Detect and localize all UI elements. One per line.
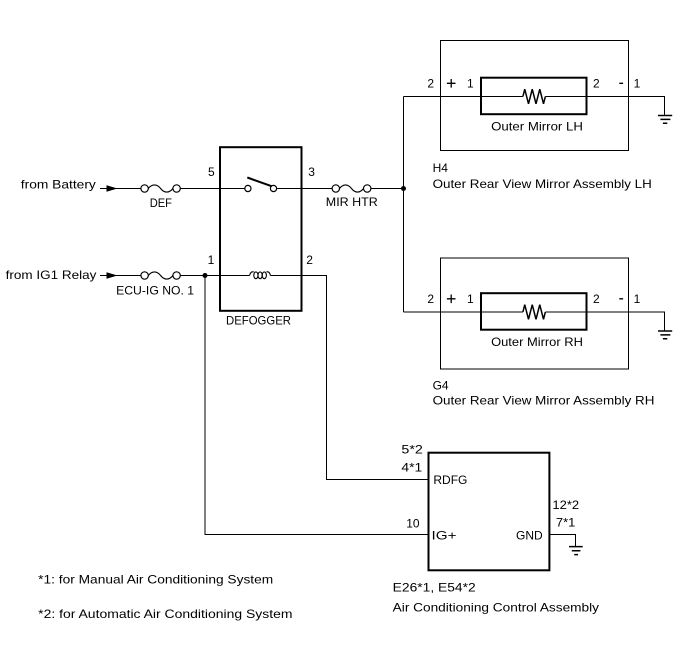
svg-text:H4: H4	[433, 161, 449, 175]
svg-text:1: 1	[467, 77, 474, 91]
svg-text:Outer Rear View Mirror Assembl: Outer Rear View Mirror Assembly RH	[433, 394, 655, 408]
svg-text:2: 2	[593, 292, 600, 306]
svg-text:10: 10	[406, 516, 420, 530]
svg-text:from IG1 Relay: from IG1 Relay	[6, 268, 97, 282]
svg-text:G4: G4	[433, 378, 449, 392]
svg-text:1: 1	[634, 292, 641, 306]
svg-text:12*2: 12*2	[552, 498, 579, 512]
svg-text:Outer Rear View Mirror Assembl: Outer Rear View Mirror Assembly LH	[433, 177, 652, 191]
svg-text:MIR HTR: MIR HTR	[326, 195, 378, 209]
svg-text:2: 2	[306, 253, 313, 267]
svg-text:from Battery: from Battery	[21, 177, 96, 191]
svg-text:3: 3	[308, 165, 315, 179]
svg-text:2: 2	[427, 292, 434, 306]
svg-text:1: 1	[208, 253, 215, 267]
svg-text:ECU-IG NO. 1: ECU-IG NO. 1	[116, 284, 194, 298]
svg-text:*1: for Manual Air Conditionin: *1: for Manual Air Conditioning System	[38, 573, 273, 587]
svg-text:5: 5	[208, 165, 215, 179]
svg-text:E26*1, E54*2: E26*1, E54*2	[393, 581, 476, 595]
svg-text:IG+: IG+	[432, 528, 457, 542]
svg-text:4*1: 4*1	[401, 461, 422, 475]
svg-text:5*2: 5*2	[401, 443, 423, 457]
svg-text:7*1: 7*1	[556, 515, 576, 529]
svg-text:DEF: DEF	[150, 196, 172, 210]
svg-text:2: 2	[427, 77, 434, 91]
svg-text:GND: GND	[516, 528, 543, 542]
svg-text:1: 1	[634, 77, 641, 91]
svg-text:Outer Mirror LH: Outer Mirror LH	[491, 120, 583, 134]
svg-text:Outer Mirror RH: Outer Mirror RH	[491, 335, 583, 349]
svg-text:RDFG: RDFG	[433, 473, 467, 487]
svg-text:Air Conditioning Control Assem: Air Conditioning Control Assembly	[393, 601, 599, 615]
svg-text:1: 1	[467, 292, 474, 306]
svg-text:DEFOGGER: DEFOGGER	[226, 314, 291, 328]
svg-text:2: 2	[593, 77, 600, 91]
svg-text:*2: for Automatic Air Conditio: *2: for Automatic Air Conditioning Syste…	[38, 607, 292, 621]
